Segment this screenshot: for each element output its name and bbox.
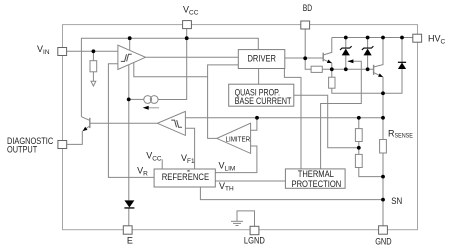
svg-text:VCC: VCC [146,151,162,163]
svg-text:DRIVER: DRIVER [248,54,277,64]
svg-text:SN: SN [391,196,402,206]
svg-text:LIMITER: LIMITER [226,134,251,143]
svg-text:VTH: VTH [219,181,234,193]
svg-text:VLIM: VLIM [219,161,236,173]
svg-text:BASE CURRENT: BASE CURRENT [235,96,292,106]
svg-text:RSENSE: RSENSE [388,129,413,140]
svg-text:VCC: VCC [183,5,199,17]
svg-text:VF1: VF1 [181,153,195,165]
svg-text:THERMAL: THERMAL [298,169,334,179]
svg-text:PROTECTION: PROTECTION [292,179,342,189]
svg-text:REFERENCE: REFERENCE [162,172,209,182]
svg-text:LGND: LGND [244,236,265,246]
svg-text:OUTPUT: OUTPUT [7,144,38,154]
svg-text:VIN: VIN [37,44,50,56]
svg-text:HVC: HVC [428,34,446,46]
svg-text:BD: BD [303,3,313,13]
svg-text:GND: GND [375,236,392,246]
svg-text:E: E [127,236,133,246]
svg-text:VR: VR [137,166,148,178]
